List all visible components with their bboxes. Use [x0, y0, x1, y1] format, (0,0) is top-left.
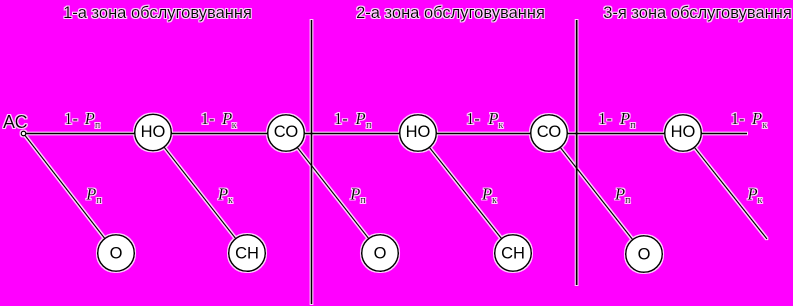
- svg-text:Р: Р: [221, 109, 232, 128]
- svg-text:СН: СН: [235, 245, 259, 263]
- svg-text:СО: СО: [274, 123, 299, 141]
- svg-text:О: О: [638, 246, 651, 264]
- svg-text:НО: НО: [141, 123, 166, 141]
- svg-text:Р: Р: [619, 109, 630, 128]
- svg-text:1-: 1-: [466, 109, 480, 128]
- svg-text:НО: НО: [406, 123, 431, 141]
- svg-text:п: п: [96, 195, 102, 206]
- svg-text:НО: НО: [671, 123, 696, 141]
- svg-text:1-: 1-: [201, 109, 215, 128]
- svg-text:Р: Р: [751, 109, 762, 128]
- svg-text:1-: 1-: [731, 109, 745, 128]
- svg-text:к: к: [498, 120, 503, 131]
- svg-text:Р: Р: [614, 185, 625, 204]
- svg-text:Р: Р: [747, 185, 758, 204]
- svg-text:Р: Р: [349, 185, 360, 204]
- svg-text:п: п: [630, 120, 636, 131]
- svg-text:1-: 1-: [334, 109, 348, 128]
- svg-text:О: О: [374, 245, 387, 263]
- svg-text:1-: 1-: [598, 109, 612, 128]
- svg-text:Р: Р: [217, 185, 228, 204]
- svg-text:к: к: [758, 195, 763, 206]
- svg-text:Р: Р: [355, 109, 366, 128]
- svg-text:к: к: [232, 120, 237, 131]
- svg-text:2-а зона обслуговування: 2-а зона обслуговування: [356, 4, 545, 22]
- svg-text:п: п: [95, 120, 101, 131]
- svg-text:О: О: [110, 245, 123, 263]
- svg-text:к: к: [228, 195, 233, 206]
- svg-text:п: п: [625, 195, 631, 206]
- svg-text:Р: Р: [487, 109, 498, 128]
- svg-text:1-: 1-: [64, 109, 78, 128]
- svg-text:Р: Р: [85, 185, 96, 204]
- svg-text:к: к: [492, 195, 497, 206]
- svg-text:СО: СО: [537, 123, 562, 141]
- svg-text:Р: Р: [481, 185, 492, 204]
- svg-text:СН: СН: [501, 245, 525, 263]
- svg-text:1-а зона обслуговування: 1-а зона обслуговування: [63, 4, 252, 22]
- svg-text:АС: АС: [3, 112, 28, 132]
- svg-text:3-я зона обслуговування: 3-я зона обслуговування: [603, 4, 792, 22]
- svg-text:Р: Р: [84, 109, 95, 128]
- svg-text:к: к: [762, 120, 767, 131]
- svg-text:п: п: [360, 195, 366, 206]
- svg-text:п: п: [366, 120, 372, 131]
